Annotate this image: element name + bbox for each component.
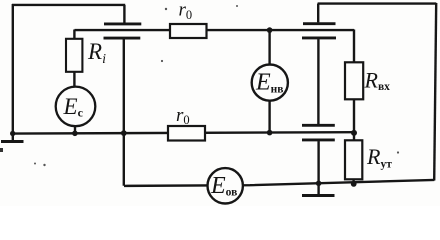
wire: right rail [434,3,436,181]
capacitor C1 bottom plate [104,37,141,40]
wire: Env bottom lead [268,100,270,133]
node: Env bottom junction [267,130,273,136]
wire: Ec bottom lead [74,126,76,134]
scan speck [161,60,163,62]
node: Env top junction [267,27,273,33]
wire: drop from top-left rail into capacitor C1 [123,5,125,23]
resistor r0 (bottom) [168,126,205,141]
wire: C3 bottom plate down across bottom wire to ground [317,141,319,195]
scan speck [397,151,399,153]
ground (left, node of lower wire) [1,140,24,143]
capacitor C1 top plate [104,22,141,25]
resistor Ri [66,39,82,72]
wire: C2 to C3 vertical [317,39,319,124]
resistor Rut [345,140,362,179]
wire: top-left rail [12,4,125,6]
scan speck [236,5,238,7]
source Eov circle [208,168,243,203]
resistor Rvx [345,62,363,99]
wire: Env top lead [268,30,270,66]
node: Ec bottom junction [72,131,78,137]
wire: left rail [12,4,14,141]
source Env circle [252,65,288,101]
ground (bottom, under C3 column) [302,194,335,197]
capacitor C3 bottom plate [302,138,335,141]
scan speck: page edge mark [0,148,3,152]
wire: Ri top lead [73,30,75,40]
node: C1 column / lower wire junction [121,130,127,136]
source Ec circle [56,87,96,127]
capacitor C2 top plate [303,22,336,25]
resistor r0 (top) [170,24,207,38]
node: Rut bottom / bottom wire junction [351,181,357,187]
wire: Rvx top lead [353,30,355,64]
wire: Rut bottom lead [352,179,354,185]
scan speck [43,164,45,166]
wire: bottom wire riser corner to Eov [124,180,434,186]
wire: Rvx bottom to Rut top through lower-wire node [353,99,355,141]
wire: Ri bottom lead to Ec [73,71,75,88]
node: lower wire / R column junction [351,130,357,136]
node: ground stub / bottom wire junction [316,181,322,187]
scan speck [165,8,167,10]
wire: upper signal wire (Ri top to Rvx top) [75,29,355,31]
wire: drop from top-right rail into capacitor C2 [317,4,319,23]
capacitor C3 top plate [302,124,335,127]
wire: C1 bottom plate down across lower wire to bottom wire [123,39,125,185]
wire: lower signal wire [12,132,354,133]
capacitor C2 bottom plate [302,36,336,39]
scan speck [34,163,36,165]
node: left rail / lower wire junction [10,131,15,136]
wire: top-right rail [318,2,437,4]
